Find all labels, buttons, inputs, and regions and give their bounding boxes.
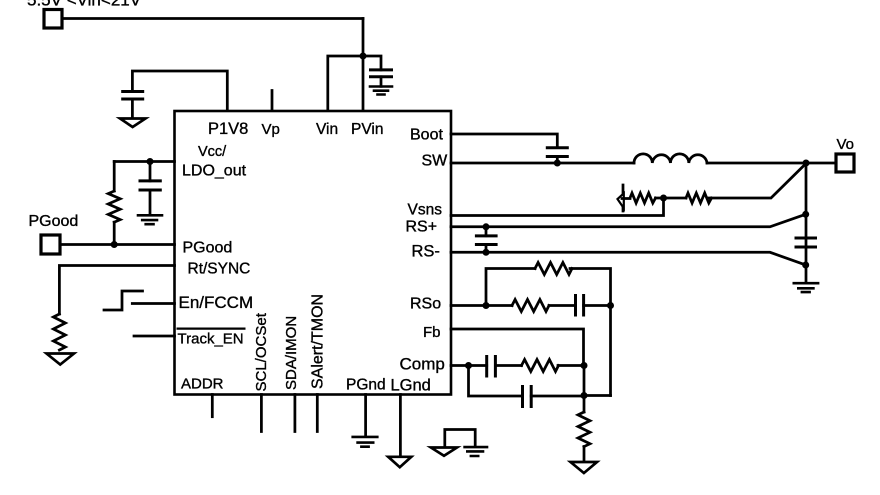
node RS+ cap	[483, 223, 490, 230]
resistor R_comp	[522, 360, 559, 372]
svg-text:Track_EN: Track_EN	[178, 331, 244, 348]
wire sense to Vo	[708, 164, 807, 199]
node cap bottom	[802, 262, 809, 269]
node Boot cap to SW	[554, 160, 561, 167]
wire output cap chain	[805, 163, 808, 283]
wire PGnd	[364, 395, 367, 437]
ground (Vcc cap)	[138, 215, 162, 224]
ground arrow (Rt)	[47, 354, 75, 365]
resistor R_PGood pullup	[113, 162, 116, 192]
wire LGnd	[399, 395, 402, 457]
wire Vp stub	[271, 91, 274, 112]
node RSo right	[607, 302, 614, 309]
capacitor C_RS	[485, 227, 488, 253]
wire En/FCCM stub	[132, 302, 174, 305]
svg-text:PGood: PGood	[183, 240, 233, 257]
wire SDA stub	[294, 395, 297, 432]
wire SCL stub	[260, 395, 263, 432]
svg-text:Rt/SYNC: Rt/SYNC	[188, 261, 251, 278]
node comp right	[581, 362, 588, 369]
wire Track_EN stub	[134, 335, 175, 338]
svg-text:Vcc/: Vcc/	[198, 144, 227, 160]
wire ADDR stub	[211, 395, 214, 417]
wire SAlert stub	[316, 395, 319, 432]
svg-text:PGood: PGood	[29, 213, 79, 230]
resistor R_fb top	[535, 263, 572, 275]
wire RS-	[451, 252, 806, 265]
svg-text:RS-: RS-	[412, 243, 440, 261]
wire SW to Vo	[707, 162, 836, 165]
wire Rt/SYNC	[59, 266, 174, 315]
wire RS+	[451, 214, 806, 227]
PGood terminal	[41, 235, 60, 254]
wire Boot	[451, 134, 557, 148]
node Vin/PVin junction	[360, 53, 367, 60]
ground arrow (legend)	[431, 448, 457, 456]
ground (PGnd)	[353, 437, 378, 447]
capacitor C_PVin	[371, 70, 392, 77]
node sense junction	[660, 195, 667, 202]
ground tie legend bracket	[445, 430, 475, 447]
svg-text:LGnd: LGnd	[391, 377, 431, 395]
svg-text:Vo: Vo	[837, 136, 855, 153]
wire PGood	[60, 243, 175, 246]
ground (legend)	[465, 447, 487, 456]
capacitor C_out	[796, 238, 816, 247]
svg-text:SW: SW	[422, 153, 449, 170]
svg-text:PVin: PVin	[351, 121, 383, 138]
wire SW	[451, 162, 634, 165]
feedback top branch	[486, 269, 535, 306]
svg-text:PGnd: PGnd	[346, 377, 386, 394]
svg-text:Vp: Vp	[262, 121, 280, 138]
svg-text:SCL/OCSet: SCL/OCSet	[253, 312, 270, 391]
capacitor C_Boot	[547, 148, 567, 157]
svg-text:Vin: Vin	[316, 121, 338, 138]
resistor R_sns1	[630, 193, 656, 203]
node RSo tap	[483, 302, 490, 309]
node Vo	[803, 160, 810, 167]
svg-text:LDO_out: LDO_out	[182, 163, 247, 180]
svg-text:P1V8: P1V8	[208, 120, 248, 138]
capacitor C_P1V8	[123, 92, 143, 100]
svg-text:ADDR: ADDR	[181, 376, 224, 393]
enable step symbol	[104, 291, 143, 310]
wire RSo	[451, 304, 512, 307]
svg-text:RS+: RS+	[406, 219, 438, 236]
output terminal Vo	[836, 154, 854, 172]
input terminal J1	[44, 10, 62, 29]
ground arrow (P1V8 cap)	[120, 119, 146, 128]
svg-text:SAlert/TMON: SAlert/TMON	[310, 294, 327, 389]
ground (output cap)	[794, 283, 818, 292]
ground arrow (LGnd)	[388, 457, 411, 467]
sense divider: arrow terminal	[622, 185, 625, 211]
wire PVin drop	[362, 19, 365, 112]
svg-text:Fb: Fb	[423, 324, 441, 341]
svg-text:RSo: RSo	[410, 296, 441, 313]
inductor L1	[634, 154, 707, 163]
wire Vin branch	[328, 56, 363, 111]
wire to input cap	[363, 56, 381, 70]
wire Vcc/LDO_out	[114, 160, 174, 163]
wire Comp	[451, 364, 469, 367]
svg-text:En/FCCM: En/FCCM	[179, 293, 254, 312]
node Vcc cap tap	[147, 158, 154, 165]
capacitor C_Vcc	[149, 162, 152, 181]
node Comp tap	[465, 362, 472, 369]
wire Vin rail top	[62, 17, 363, 20]
node PGood junction	[111, 241, 118, 248]
svg-text:SDA/IMON: SDA/IMON	[283, 316, 300, 390]
ground (PVin cap)	[370, 87, 392, 95]
wire P1V8 branch	[132, 71, 227, 111]
op IC U1 body	[175, 111, 452, 395]
capacitor C_comp2	[523, 387, 532, 407]
wire Fb	[451, 329, 584, 366]
svg-text:Comp: Comp	[400, 355, 445, 374]
ground arrow (comp divider)	[571, 462, 598, 473]
capacitor C_RSo series	[576, 296, 584, 316]
resistor R_sns2	[664, 197, 687, 200]
resistor R_RSo	[512, 300, 549, 312]
svg-text:Vsns: Vsns	[408, 202, 443, 219]
svg-text:Boot: Boot	[410, 127, 443, 144]
node comp lower	[581, 392, 588, 399]
node RS- cap	[483, 249, 490, 256]
resistor R_comp_gnd	[583, 396, 586, 413]
wire Vsns	[451, 198, 664, 216]
node cap top	[802, 211, 809, 218]
resistor R_RT	[53, 314, 65, 350]
comp lower branch	[469, 366, 523, 397]
capacitor C_comp1	[487, 357, 496, 377]
